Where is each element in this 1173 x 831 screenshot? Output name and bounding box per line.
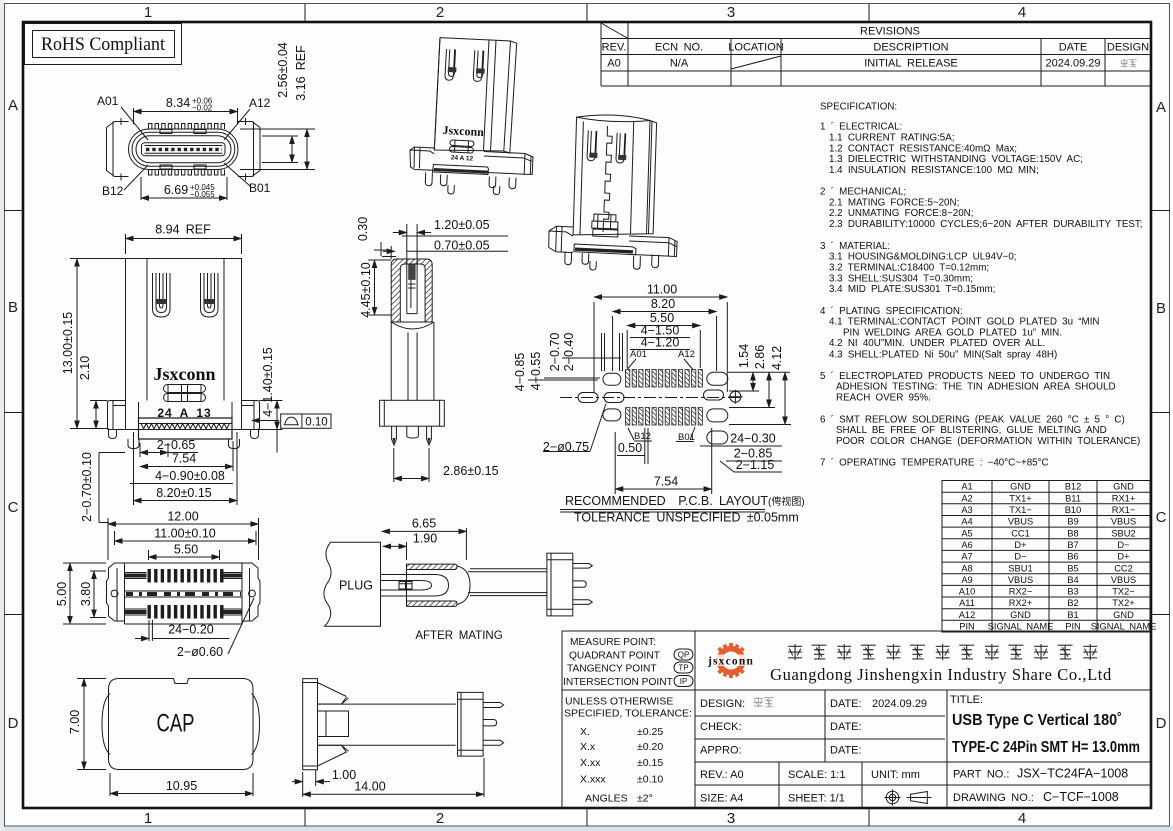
svg-text:8.34: 8.34 bbox=[166, 96, 190, 110]
svg-text:B3: B3 bbox=[1067, 587, 1078, 597]
svg-text:2.3 DURABILITY:10000 CYCLES;: 2.3 DURABILITY:10000 CYCLES;6~20N AFTER … bbox=[829, 219, 1143, 230]
shell outline bbox=[391, 259, 432, 322]
body bbox=[107, 563, 261, 624]
svg-text:LOCATION: LOCATION bbox=[728, 42, 783, 54]
svg-text:3.3 SHELL:SUS304 T=0.30mm;: 3.3 SHELL:SUS304 T=0.30mm; bbox=[829, 273, 973, 284]
dim 5.00 bbox=[55, 563, 106, 624]
mated shell bbox=[381, 564, 471, 606]
svg-text:X.: X. bbox=[580, 726, 590, 738]
svg-text:A: A bbox=[8, 97, 18, 114]
dim 7.54 bbox=[615, 428, 712, 494]
svg-text:2: 2 bbox=[436, 4, 444, 21]
dim 1.20 bbox=[393, 218, 508, 264]
flatness symbol 0.10 bbox=[252, 414, 331, 429]
svg-text:USB Type C Vertical 180˚: USB Type C Vertical 180˚ bbox=[952, 712, 1122, 729]
wing right bbox=[242, 401, 260, 430]
svg-text:0.30: 0.30 bbox=[356, 217, 370, 241]
svg-text:4−0.90±0.08: 4−0.90±0.08 bbox=[155, 469, 225, 483]
dim 24-0.30 bbox=[700, 432, 782, 447]
svg-text:D+: D+ bbox=[1117, 552, 1129, 562]
svg-text:D: D bbox=[1156, 715, 1167, 732]
svg-text:PIN WELDING AREA GOLD PLAT: PIN WELDING AREA GOLD PLATED 1u” MIN. bbox=[843, 328, 1062, 339]
top comb rails bbox=[125, 573, 243, 579]
svg-text:6.69: 6.69 bbox=[164, 183, 188, 197]
svg-text:INITIAL RELEASE: INITIAL RELEASE bbox=[864, 58, 958, 70]
page edge strip bbox=[0, 826, 1173, 831]
svg-text:−0.055: −0.055 bbox=[190, 190, 215, 199]
svg-text:3.1 HOUSING&MOLDING:LCP UL94: 3.1 HOUSING&MOLDING:LCP UL94V−0; bbox=[829, 252, 1017, 263]
svg-text:0.50: 0.50 bbox=[618, 441, 642, 455]
middle plate band bbox=[125, 591, 243, 597]
svg-text:A11: A11 bbox=[959, 598, 975, 608]
svg-text:4: 4 bbox=[1018, 810, 1026, 827]
title block bbox=[562, 631, 1151, 808]
label B01 bbox=[676, 427, 695, 443]
dim 14.00 bbox=[303, 758, 484, 797]
svg-text:PIN: PIN bbox=[1065, 622, 1081, 632]
svg-text:2 ´ MECHANICAL;: 2 ´ MECHANICAL; bbox=[820, 187, 906, 198]
jsxconn gear logo bbox=[707, 643, 755, 678]
svg-text:A5: A5 bbox=[961, 528, 972, 538]
center mechanism bbox=[164, 385, 206, 403]
svg-text:5.50: 5.50 bbox=[174, 543, 198, 557]
svg-text:PLUG: PLUG bbox=[339, 579, 373, 593]
svg-text:10.95: 10.95 bbox=[166, 779, 197, 793]
svg-text:1.1 CURRENT RATING:5A;: 1.1 CURRENT RATING:5A; bbox=[829, 133, 955, 144]
dim 2-0.65 bbox=[140, 438, 198, 457]
svg-text:A4: A4 bbox=[961, 517, 972, 527]
revisions table bbox=[601, 22, 1151, 86]
measure point legend bbox=[563, 637, 673, 688]
svg-text:B10: B10 bbox=[1065, 505, 1082, 515]
dim 2-0.70 vertical bbox=[80, 452, 125, 522]
svg-text:5 ´ ELECTROPLATED PRODUCTS N: 5 ´ ELECTROPLATED PRODUCTS NEED TO UNDER… bbox=[820, 371, 1110, 382]
svg-text:±0.10: ±0.10 bbox=[637, 774, 663, 786]
svg-text:2024.09.29: 2024.09.29 bbox=[1045, 58, 1100, 70]
designer name (CJK strokes, gray) bbox=[754, 697, 774, 708]
svg-text:2.2 UNMATING FORCE:8~20N;: 2.2 UNMATING FORCE:8~20N; bbox=[829, 208, 973, 219]
svg-text:DESCRIPTION: DESCRIPTION bbox=[873, 42, 948, 54]
top gusset bbox=[318, 683, 349, 705]
company chinese name (stroke glyphs) bbox=[788, 644, 1097, 660]
svg-text:B8: B8 bbox=[1067, 528, 1078, 538]
wing pin right bbox=[251, 430, 259, 439]
dim 24-0.20 bbox=[135, 620, 229, 641]
wing right bbox=[238, 118, 260, 181]
svg-text:5.00: 5.00 bbox=[55, 582, 69, 606]
dim 8.20 bbox=[134, 432, 238, 505]
svg-text:MEASURE POINT:: MEASURE POINT: bbox=[570, 637, 656, 648]
svg-text:QP: QP bbox=[678, 651, 690, 660]
svg-text:C: C bbox=[8, 499, 19, 516]
svg-text:B: B bbox=[1156, 300, 1166, 317]
svg-text:4 ´ PLATING SPECIFICATION:: 4 ´ PLATING SPECIFICATION: bbox=[820, 306, 963, 317]
svg-text:TX1−: TX1− bbox=[1009, 505, 1031, 515]
svg-text:2−0.65: 2−0.65 bbox=[157, 438, 196, 452]
svg-text:14.00: 14.00 bbox=[354, 780, 385, 794]
svg-text:3 ´ MATERIAL:: 3 ´ MATERIAL: bbox=[820, 241, 890, 252]
body bbox=[573, 115, 657, 235]
centre line row bbox=[560, 397, 740, 399]
dim 6.69 bbox=[141, 177, 227, 200]
serrated plate bbox=[433, 165, 489, 175]
svg-text:REV.: A0: REV.: A0 bbox=[700, 769, 744, 781]
dim 2.86 bbox=[729, 345, 775, 408]
svg-text:D: D bbox=[8, 715, 19, 732]
svg-text:8.94 REF: 8.94 REF bbox=[155, 223, 211, 237]
svg-text:TX2−: TX2− bbox=[1112, 587, 1134, 597]
svg-text:1.3 DIELECTRIC WITHSTANDING: 1.3 DIELECTRIC WITHSTANDING VOLTAGE:150V… bbox=[829, 154, 1083, 165]
dim 11.00 bbox=[594, 283, 727, 393]
dim 6.65 bbox=[382, 517, 467, 561]
svg-text:jsxconn: jsxconn bbox=[707, 656, 754, 668]
svg-text:UNLESS OTHERWISE: UNLESS OTHERWISE bbox=[565, 696, 673, 708]
svg-text:A6: A6 bbox=[961, 540, 972, 550]
tongue inside shell bbox=[407, 262, 417, 314]
svg-text:RECOMMENDED P.C.B. LAYOUT(俜视图: RECOMMENDED P.C.B. LAYOUT(俜视图) bbox=[565, 494, 805, 508]
svg-text:B1: B1 bbox=[1067, 610, 1078, 620]
svg-text:SPECIFIED, TOLERANCE:: SPECIFIED, TOLERANCE: bbox=[564, 708, 692, 720]
svg-text:4−1.20: 4−1.20 bbox=[641, 336, 680, 350]
svg-text:7.54: 7.54 bbox=[172, 452, 196, 466]
svg-text:1.00: 1.00 bbox=[332, 768, 356, 782]
svg-text:X.x: X.x bbox=[580, 741, 596, 753]
svg-text:2−ø0.60: 2−ø0.60 bbox=[177, 645, 223, 659]
svg-text:POOR COLOR CHANGE (DEFORMAT: POOR COLOR CHANGE (DEFORMATION WITHIN TO… bbox=[836, 436, 1140, 447]
screw holes bbox=[111, 590, 118, 597]
svg-text:SCALE: 1:1: SCALE: 1:1 bbox=[788, 769, 845, 781]
right connector body bbox=[547, 553, 573, 616]
serrated plate bbox=[574, 244, 636, 255]
body outline bbox=[126, 259, 242, 430]
svg-text:±0.15: ±0.15 bbox=[637, 757, 663, 769]
bottom comb teeth bbox=[148, 605, 224, 619]
serrated flange bbox=[139, 402, 233, 439]
dim 13.00 bbox=[61, 259, 126, 429]
svg-text:REV.: REV. bbox=[602, 42, 627, 54]
svg-text:C−TCF−1008: C−TCF−1008 bbox=[1043, 790, 1119, 804]
svg-text:8.20: 8.20 bbox=[651, 297, 675, 311]
hook 2 bbox=[473, 50, 484, 81]
svg-text:±0.20: ±0.20 bbox=[637, 741, 663, 753]
svg-text:SIZE: A4: SIZE: A4 bbox=[700, 793, 743, 805]
bottom block bbox=[592, 214, 618, 237]
svg-text:DESIGN: DESIGN bbox=[1107, 42, 1149, 54]
zone ticks bottom bbox=[305, 808, 869, 826]
svg-text:DATE:: DATE: bbox=[830, 745, 862, 757]
svg-text:TX2+: TX2+ bbox=[1112, 598, 1134, 608]
svg-text:DATE:: DATE: bbox=[830, 698, 862, 710]
svg-text:−0.02: −0.02 bbox=[192, 104, 213, 113]
flange bbox=[380, 400, 445, 426]
dim 2.56 / 3.16 REF bbox=[240, 42, 315, 169]
svg-text:2.1 MATING FORCE:5~20N;: 2.1 MATING FORCE:5~20N; bbox=[829, 197, 959, 208]
svg-text:3: 3 bbox=[727, 810, 735, 827]
label A12 bbox=[678, 349, 695, 372]
svg-text:4.45±0.10: 4.45±0.10 bbox=[359, 262, 373, 318]
svg-text:0.70±0.05: 0.70±0.05 bbox=[434, 239, 490, 253]
cap body bbox=[109, 679, 254, 770]
svg-text:N/A: N/A bbox=[670, 58, 689, 70]
wing right bbox=[629, 236, 678, 257]
svg-text:A9: A9 bbox=[961, 575, 972, 585]
row A side ovals bbox=[603, 373, 621, 385]
row A pads bbox=[626, 370, 703, 388]
svg-text:DATE:: DATE: bbox=[830, 721, 862, 733]
svg-text:B5: B5 bbox=[1067, 563, 1078, 573]
svg-text:A01: A01 bbox=[97, 94, 119, 108]
svg-text:B01: B01 bbox=[249, 181, 271, 195]
svg-text:TOLERANCE UNSPECIFIED ±0.05mm: TOLERANCE UNSPECIFIED ±0.05mm bbox=[574, 511, 799, 525]
svg-text:A7: A7 bbox=[961, 552, 972, 562]
wing left bbox=[107, 118, 129, 181]
shell bottom arc bbox=[391, 322, 434, 329]
svg-text:7.00: 7.00 bbox=[68, 710, 82, 734]
svg-text:3.4 MID PLATE:SUS301 T=0.15: 3.4 MID PLATE:SUS301 T=0.15mm; bbox=[829, 284, 995, 295]
dim 0.30 bbox=[356, 217, 396, 259]
svg-text:SIGNAL NAME: SIGNAL NAME bbox=[988, 622, 1054, 632]
right connector pins bbox=[573, 564, 593, 605]
svg-text:SBU1: SBU1 bbox=[1008, 563, 1032, 573]
svg-text:RX2+: RX2+ bbox=[1009, 598, 1033, 608]
dim 2-phi0.60 bbox=[177, 598, 254, 659]
svg-text:A12: A12 bbox=[959, 610, 976, 620]
outer shell oval bbox=[129, 129, 239, 170]
svg-text:X.xx: X.xx bbox=[580, 757, 601, 769]
svg-text:1: 1 bbox=[144, 4, 152, 21]
plug block bbox=[324, 542, 381, 626]
svg-text:4.12: 4.12 bbox=[770, 346, 784, 370]
svg-text:B4: B4 bbox=[1067, 575, 1078, 585]
neck bbox=[391, 322, 434, 400]
svg-text:DESIGN:: DESIGN: bbox=[700, 698, 745, 710]
svg-text:11.00: 11.00 bbox=[647, 283, 677, 297]
svg-text:VBUS: VBUS bbox=[1111, 575, 1136, 585]
svg-text:ADHESION TESTING: THE TIN: ADHESION TESTING: THE TIN ADHESION AREA … bbox=[836, 382, 1116, 393]
dim 7.00 bbox=[68, 679, 106, 770]
svg-text:VBUS: VBUS bbox=[1111, 517, 1136, 527]
svg-text:SPECIFICATION:: SPECIFICATION: bbox=[820, 102, 897, 113]
hook 2 bbox=[616, 133, 626, 163]
dim 12.00 bbox=[108, 510, 259, 561]
svg-text:PART NO.:: PART NO.: bbox=[953, 769, 1009, 781]
dim 4-1.50 bbox=[630, 324, 690, 338]
svg-text:11.00±0.10: 11.00±0.10 bbox=[154, 527, 216, 541]
dim 2-1.15 bbox=[720, 458, 782, 472]
svg-text:A12: A12 bbox=[678, 349, 695, 360]
svg-text:CC1: CC1 bbox=[1011, 528, 1030, 538]
bottom gusset bbox=[318, 745, 349, 766]
pins bbox=[425, 173, 516, 195]
svg-text:SIGNAL NAME: SIGNAL NAME bbox=[1091, 622, 1157, 632]
wing left bbox=[108, 401, 126, 430]
svg-text:GND: GND bbox=[1113, 482, 1134, 492]
pins bbox=[565, 252, 659, 271]
svg-text:12.00: 12.00 bbox=[167, 510, 198, 524]
svg-text:GND: GND bbox=[1113, 610, 1134, 620]
svg-text:UNIT: mm: UNIT: mm bbox=[871, 769, 920, 781]
svg-text:TITLE:: TITLE: bbox=[950, 694, 983, 706]
hook 1 bbox=[587, 131, 597, 161]
svg-text:7.54: 7.54 bbox=[654, 475, 678, 489]
row B side ovals bbox=[603, 409, 621, 421]
svg-text:RX1+: RX1+ bbox=[1112, 493, 1136, 503]
svg-text:ANGLES: ANGLES bbox=[585, 793, 628, 805]
zone ticks left bbox=[4, 211, 23, 615]
svg-text:1.20±0.05: 1.20±0.05 bbox=[434, 218, 490, 232]
shell ring 3 bbox=[136, 136, 231, 163]
projection symbols bbox=[885, 790, 932, 806]
svg-text:2.56±0.04: 2.56±0.04 bbox=[276, 42, 290, 98]
latch hook right bbox=[201, 273, 219, 317]
svg-text:2−0.40: 2−0.40 bbox=[562, 333, 576, 372]
svg-text:VBUS: VBUS bbox=[1008, 575, 1033, 585]
svg-text:1.4 INSULATION RESISTANCE:10: 1.4 INSULATION RESISTANCE:100 MΩ MIN; bbox=[829, 165, 1039, 176]
svg-text:3: 3 bbox=[727, 4, 735, 21]
dim 5.50 bbox=[627, 311, 700, 368]
wing right bbox=[483, 152, 533, 175]
svg-text:TYPE-C 24Pin SMT H= 13.0mm: TYPE-C 24Pin SMT H= 13.0mm bbox=[952, 739, 1140, 756]
svg-text:B6: B6 bbox=[1067, 552, 1078, 562]
svg-text:A: A bbox=[1156, 99, 1166, 116]
svg-text:2−1.15: 2−1.15 bbox=[736, 458, 775, 472]
svg-text:JSX−TC24FA−1008: JSX−TC24FA−1008 bbox=[1017, 767, 1128, 781]
svg-text:2.86: 2.86 bbox=[753, 345, 767, 369]
svg-text:B7: B7 bbox=[1067, 540, 1078, 550]
svg-text:A8: A8 bbox=[961, 563, 972, 573]
svg-text:REVISIONS: REVISIONS bbox=[860, 26, 920, 38]
svg-text:IP: IP bbox=[680, 677, 688, 686]
svg-text:A3: A3 bbox=[961, 505, 972, 515]
svg-text:0.10: 0.10 bbox=[305, 417, 327, 429]
dim 5.50 bbox=[149, 543, 220, 561]
svg-text:APPRO:: APPRO: bbox=[700, 745, 742, 757]
flange corner tabs bbox=[128, 439, 240, 449]
tolerance legend bbox=[564, 696, 692, 805]
zone ticks right bbox=[1151, 211, 1170, 615]
svg-text:6.65: 6.65 bbox=[412, 517, 436, 531]
svg-text:1.90: 1.90 bbox=[413, 532, 437, 546]
pin assignment table bbox=[942, 481, 1156, 633]
svg-text:VBUS: VBUS bbox=[1008, 517, 1033, 527]
svg-text:CC2: CC2 bbox=[1114, 563, 1133, 573]
tongue bbox=[142, 143, 226, 156]
diagonal in location cell bbox=[731, 56, 781, 69]
svg-text:4.3 SHELL:PLATED Ni 50u” M: 4.3 SHELL:PLATED Ni 50u” MIN(Salt spray … bbox=[829, 349, 1057, 360]
svg-text:A0: A0 bbox=[607, 58, 620, 70]
pins bbox=[483, 703, 504, 746]
svg-text:X.xxx: X.xxx bbox=[580, 774, 606, 786]
tongue contact dashes bbox=[146, 148, 222, 151]
svg-text:B: B bbox=[8, 299, 18, 316]
svg-text:4.2 NI 40U”MIN. UNDER PLAT: 4.2 NI 40U”MIN. UNDER PLATED OVER ALL. bbox=[829, 338, 1045, 349]
svg-text:TX1+: TX1+ bbox=[1009, 493, 1031, 503]
svg-text:6 ´ SMT REFLOW SOLDERING (P: 6 ´ SMT REFLOW SOLDERING (PEAK VALUE 260… bbox=[820, 414, 1125, 425]
tube bbox=[318, 704, 456, 745]
svg-text:REACH OVER 95%.: REACH OVER 95%. bbox=[836, 393, 931, 404]
dim 11.00 bbox=[115, 527, 257, 546]
caption bbox=[560, 494, 805, 525]
svg-text:24−0.20: 24−0.20 bbox=[168, 623, 214, 637]
dim 0.70 bbox=[383, 239, 508, 253]
svg-text:2: 2 bbox=[436, 810, 444, 827]
dim 10.95 bbox=[110, 773, 253, 796]
svg-text:1: 1 bbox=[144, 810, 152, 827]
svg-text:7 ´ OPERATING TEMPERATURE : −: 7 ´ OPERATING TEMPERATURE : −40°C~+85°C bbox=[820, 458, 1049, 469]
svg-text:GND: GND bbox=[1010, 482, 1031, 492]
wing left bbox=[549, 226, 574, 252]
svg-text:B9: B9 bbox=[1067, 517, 1078, 527]
svg-text:RoHS Compliant: RoHS Compliant bbox=[41, 34, 166, 55]
right block bbox=[458, 692, 484, 756]
shell ring 2 bbox=[132, 132, 235, 166]
svg-text:SBU2: SBU2 bbox=[1111, 528, 1135, 538]
leader bars left bbox=[602, 333, 623, 371]
svg-text:B11: B11 bbox=[1065, 493, 1081, 503]
svg-text:4: 4 bbox=[1018, 4, 1026, 21]
svg-text:C: C bbox=[1156, 509, 1167, 526]
svg-text:D−: D− bbox=[1014, 552, 1026, 562]
svg-text:4.1 TERMINAL:CONTACT POINT: 4.1 TERMINAL:CONTACT POINT GOLD PLATED 3… bbox=[829, 317, 1100, 328]
svg-text:Jsxconn: Jsxconn bbox=[153, 364, 215, 384]
dim 8.34 bbox=[134, 96, 238, 124]
body bbox=[434, 38, 516, 154]
svg-text:SHEET: 1/1: SHEET: 1/1 bbox=[788, 793, 845, 805]
latch box bbox=[318, 711, 349, 737]
dim 3.80 bbox=[79, 571, 106, 618]
mechanism block bbox=[449, 140, 474, 153]
side flap left bbox=[102, 694, 110, 755]
svg-text:A2: A2 bbox=[961, 493, 972, 503]
pins below bbox=[392, 426, 397, 445]
bottom comb rails bbox=[125, 609, 243, 615]
dim 4-0.90 bbox=[130, 469, 233, 484]
svg-text:2.86±0.15: 2.86±0.15 bbox=[443, 464, 499, 478]
dim 2.10 bbox=[78, 356, 108, 429]
svg-text:2−0.70±0.10: 2−0.70±0.10 bbox=[80, 452, 94, 522]
top pin row bbox=[149, 124, 225, 130]
dim 1.00 bbox=[292, 768, 356, 786]
svg-text:4−1.40±0.15: 4−1.40±0.15 bbox=[261, 347, 275, 417]
dim 2-0.85 bbox=[726, 447, 782, 462]
left plate bbox=[303, 679, 318, 770]
svg-text:13.00±0.15: 13.00±0.15 bbox=[61, 312, 75, 375]
svg-text:4−0.85: 4−0.85 bbox=[513, 353, 527, 392]
svg-text:RX2−: RX2− bbox=[1009, 587, 1033, 597]
dim 8.20 bbox=[613, 297, 717, 371]
tube to connector bbox=[468, 569, 547, 596]
bottom pin row bbox=[149, 170, 225, 176]
svg-text:2.10: 2.10 bbox=[78, 356, 92, 380]
svg-text:Jsxconn: Jsxconn bbox=[442, 123, 484, 139]
svg-text:±0.25: ±0.25 bbox=[637, 726, 663, 738]
top comb teeth bbox=[148, 569, 224, 583]
svg-text:3.16 REF: 3.16 REF bbox=[294, 45, 308, 101]
dim 1.90 bbox=[383, 532, 437, 561]
dim 7.54 bbox=[140, 441, 233, 471]
svg-text:24 A 12: 24 A 12 bbox=[451, 154, 474, 162]
svg-text:1 ´ ELECTRICAL:: 1 ´ ELECTRICAL: bbox=[820, 122, 902, 133]
svg-text:24−0.30: 24−0.30 bbox=[730, 432, 776, 446]
dim 4-1.20 bbox=[630, 336, 690, 350]
svg-text:A01: A01 bbox=[630, 349, 647, 360]
svg-text:D+: D+ bbox=[1014, 540, 1026, 550]
dim 8.94 REF bbox=[126, 223, 242, 255]
svg-text:DATE: DATE bbox=[1059, 42, 1088, 54]
zigzag seam bbox=[603, 126, 612, 232]
design/check/appro rows bbox=[700, 698, 927, 805]
svg-text:Guangdong Jinshengxin Industry: Guangdong Jinshengxin Industry Share Co.… bbox=[770, 665, 1112, 684]
